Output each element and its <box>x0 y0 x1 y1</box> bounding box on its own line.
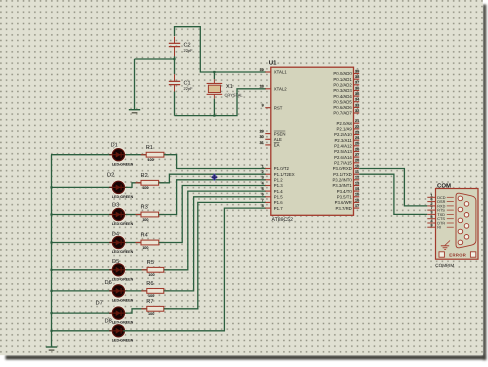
U1 right pin 39 P0.0/AD0 <box>333 69 359 76</box>
COM DB9 hole pin 2 <box>458 207 463 212</box>
svg-text:LED-GREEN: LED-GREEN <box>112 222 134 226</box>
svg-text:33: 33 <box>355 103 359 107</box>
svg-text:PSEN: PSEN <box>274 131 286 136</box>
capacitor C2 <box>169 37 193 57</box>
svg-text:P1.6: P1.6 <box>274 200 283 205</box>
svg-text:LED-GREEN: LED-GREEN <box>112 338 134 342</box>
U1 right pin 25 P2.4/A12 <box>334 142 359 149</box>
connector COM COMPIM <box>427 182 478 268</box>
COM DB9 hole pin 4 <box>458 229 463 234</box>
LED D6 <box>105 280 134 302</box>
U1 left pin 4 P1.3 <box>262 181 284 188</box>
U1 left pin 18 XTAL2 <box>260 85 288 92</box>
U1 right pin 12 P3.2/INT0 <box>332 176 359 183</box>
svg-text:11: 11 <box>355 170 359 174</box>
svg-text:100: 100 <box>147 158 153 162</box>
wire D1 to R1 <box>126 154 147 156</box>
svg-text:100: 100 <box>142 186 148 190</box>
COM DB9 hole pin 5 <box>458 240 463 245</box>
resistor R5 <box>142 260 170 277</box>
svg-text:12: 12 <box>355 176 359 180</box>
svg-text:9: 9 <box>430 223 432 227</box>
svg-text:22: 22 <box>355 125 359 129</box>
svg-text:P2.6/A14: P2.6/A14 <box>334 155 352 160</box>
node bus junction <box>50 213 52 215</box>
svg-text:XTAL1: XTAL1 <box>274 70 287 75</box>
svg-text:R4: R4 <box>141 233 148 239</box>
wire ground branch <box>135 58 175 60</box>
svg-text:13: 13 <box>355 181 359 185</box>
U1 left pin 8 P1.7 <box>262 204 284 211</box>
svg-text:100: 100 <box>142 246 148 250</box>
wire D8 to P1.7 pin <box>123 208 266 331</box>
COM pin 8 CTS <box>427 218 435 220</box>
COM DB9 hole pin 8 <box>464 224 469 229</box>
node bus junction <box>50 330 52 332</box>
svg-text:P1.7: P1.7 <box>274 206 283 211</box>
svg-text:D3: D3 <box>112 203 119 209</box>
svg-text:P2.2/A10: P2.2/A10 <box>334 132 352 137</box>
resistor R1 <box>141 145 170 162</box>
COM pin 4 DTR <box>427 222 435 224</box>
svg-text:LED-GREEN: LED-GREEN <box>112 195 134 199</box>
U1 right pin 28 P2.7/A15 <box>334 159 359 166</box>
svg-text:P3.4/T0: P3.4/T0 <box>337 189 353 194</box>
svg-text:100: 100 <box>142 218 148 222</box>
U1 left pin 19 XTAL1 <box>260 68 288 75</box>
capacitor C1 <box>169 74 193 91</box>
svg-text:19: 19 <box>260 68 264 72</box>
resistor R7 <box>141 299 169 316</box>
U1 right pin 38 P0.1/AD1 <box>333 75 359 82</box>
svg-text:D8: D8 <box>105 319 112 325</box>
svg-text:P2.5/A13: P2.5/A13 <box>334 149 352 154</box>
svg-text:D2: D2 <box>107 173 114 179</box>
U1 left pin 2 P1.1/T2EX <box>262 170 295 177</box>
ground (LED bus) <box>46 346 57 350</box>
wire P3.0 to COM RXD <box>359 169 427 206</box>
LED D7 <box>96 301 134 325</box>
svg-text:EA: EA <box>274 143 280 148</box>
svg-text:D1: D1 <box>111 142 118 148</box>
resistor R2 <box>136 173 165 190</box>
wire crystal top pin <box>213 72 215 79</box>
wire D6 to R6 <box>126 290 147 292</box>
U1 left pin 6 P1.5 <box>262 193 284 200</box>
node junction gnd tap <box>173 58 175 60</box>
svg-text:P1.0/T2: P1.0/T2 <box>274 166 290 171</box>
svg-text:LED-GREEN: LED-GREEN <box>112 299 134 303</box>
COM pin 9 RI <box>427 226 435 228</box>
crystal X1 <box>207 83 244 97</box>
COM DB9 hole pin 7 <box>464 213 469 218</box>
wire D3 to R3 <box>126 214 142 216</box>
svg-text:18: 18 <box>260 85 264 89</box>
COM DB9 hole pin 1 <box>458 196 463 201</box>
wire D7 to R7 <box>126 309 147 313</box>
node marker (blue diamond) <box>211 173 217 181</box>
svg-text:P1.4: P1.4 <box>274 189 283 194</box>
U1 right pin 10 P3.0/RXD <box>333 164 360 171</box>
U1 right pin 36 P0.3/AD3 <box>333 86 359 93</box>
svg-text:P0.4/AD4: P0.4/AD4 <box>333 94 352 99</box>
wire bus to D6 <box>51 290 113 292</box>
svg-text:COMPIM: COMPIM <box>435 263 454 268</box>
U1 right pin 33 P0.6/AD6 <box>333 103 359 110</box>
U1 right pin 13 P3.3/INT1 <box>332 181 359 188</box>
COM DB9 hole pin 6 <box>464 202 469 207</box>
svg-text:XTAL2: XTAL2 <box>274 87 287 92</box>
svg-text:X1: X1 <box>226 84 233 90</box>
svg-text:9: 9 <box>262 104 264 108</box>
U1 right pin 16 P3.6/WR <box>335 198 360 205</box>
svg-text:D6: D6 <box>105 280 112 286</box>
ground (oscillator) <box>129 109 140 113</box>
svg-text:LED-GREEN: LED-GREEN <box>112 277 134 281</box>
svg-text:P3.1/TXD: P3.1/TXD <box>333 172 352 177</box>
svg-text:U1: U1 <box>269 60 277 67</box>
svg-text:R6: R6 <box>146 281 153 287</box>
wire R3 to P1.2 pin <box>159 180 266 215</box>
svg-text:P1.1/T2EX: P1.1/T2EX <box>274 172 295 177</box>
node bus junction <box>50 269 52 271</box>
svg-text:17: 17 <box>355 204 359 208</box>
wire C2 top to XTAL1 net <box>175 27 267 72</box>
U1 left pin 9 RST <box>262 104 283 111</box>
svg-text:15: 15 <box>355 193 359 197</box>
U1 right pin 22 P2.1/A9 <box>337 125 360 132</box>
LED D1 <box>109 142 133 166</box>
U1 right pin 15 P3.5/T1 <box>337 193 359 200</box>
svg-text:P2.1/A9: P2.1/A9 <box>337 127 353 132</box>
svg-text:27: 27 <box>355 153 359 157</box>
node bus junction <box>50 290 52 292</box>
svg-text:7: 7 <box>262 198 264 202</box>
svg-text:P2.4/A12: P2.4/A12 <box>334 144 352 149</box>
svg-text:P0.7/AD7: P0.7/AD7 <box>333 111 352 116</box>
svg-text:ERROR: ERROR <box>449 253 466 258</box>
COM chassis ground glyph <box>445 241 450 246</box>
U1 right pin 37 P0.2/AD2 <box>333 81 359 88</box>
wire bus to D3 <box>51 214 113 216</box>
svg-text:D4: D4 <box>112 232 119 238</box>
wire R7 to P1.6 pin <box>164 202 266 308</box>
LED D2 <box>107 173 134 199</box>
COM DB9 hole pin 9 <box>464 235 469 240</box>
svg-text:2: 2 <box>262 170 264 174</box>
svg-text:LED-GREEN: LED-GREEN <box>112 250 134 254</box>
LED D3 <box>109 203 133 227</box>
svg-text:28: 28 <box>355 159 359 163</box>
U1 right pin 27 P2.6/A14 <box>334 153 359 160</box>
svg-text:29: 29 <box>260 130 264 134</box>
svg-text:10: 10 <box>355 164 359 168</box>
U1 left pin 1 P1.0/T2 <box>262 164 290 171</box>
svg-text:R7: R7 <box>146 299 153 305</box>
svg-text:16: 16 <box>355 198 359 202</box>
svg-text:P3.7/RD: P3.7/RD <box>336 206 352 211</box>
svg-text:31: 31 <box>260 141 264 145</box>
wire crystal bottom pin <box>213 95 215 99</box>
svg-text:8: 8 <box>262 204 264 208</box>
svg-text:37: 37 <box>355 81 359 85</box>
U1 right pin 17 P3.7/RD <box>336 204 360 211</box>
svg-text:ALE: ALE <box>274 137 282 142</box>
svg-text:22pF: 22pF <box>184 48 194 53</box>
svg-text:23: 23 <box>355 130 359 134</box>
svg-text:100: 100 <box>148 312 154 316</box>
svg-text:R5: R5 <box>147 260 154 266</box>
wire D4 to R4 <box>126 242 142 244</box>
svg-text:P2.7/A15: P2.7/A15 <box>334 161 352 166</box>
svg-text:P2.0/A8: P2.0/A8 <box>337 121 353 126</box>
svg-text:P0.5/AD5: P0.5/AD5 <box>333 99 352 104</box>
svg-text:P2.3/A11: P2.3/A11 <box>334 138 352 143</box>
wire R5 to P1.4 pin <box>164 191 266 270</box>
node junction XTAL1/crystal <box>213 71 215 73</box>
U1 left pin 30 ALE <box>260 135 282 142</box>
wire R6 to P1.5 pin <box>164 197 266 291</box>
svg-text:P3.2/INT0: P3.2/INT0 <box>332 178 352 183</box>
wire LED cathode bus <box>51 155 53 347</box>
wire bus to D7 <box>51 312 113 314</box>
wire R2 to P1.1 pin <box>159 174 266 183</box>
svg-text:CRYSTAL: CRYSTAL <box>225 92 244 97</box>
svg-text:21: 21 <box>355 119 359 123</box>
svg-text:1: 1 <box>262 164 264 168</box>
svg-text:P3.6/WR: P3.6/WR <box>335 200 352 205</box>
svg-text:P1.2: P1.2 <box>274 178 283 183</box>
svg-text:P1.3: P1.3 <box>274 183 283 188</box>
svg-text:LED-GREEN: LED-GREEN <box>112 162 134 166</box>
node bus junction <box>50 312 52 314</box>
svg-text:22pF: 22pF <box>184 86 194 91</box>
U1 right pin 21 P2.0/A8 <box>337 119 360 126</box>
wire XTAL2 net <box>175 89 267 116</box>
svg-text:26: 26 <box>355 147 359 151</box>
svg-text:100: 100 <box>148 273 154 277</box>
svg-text:P0.6/AD6: P0.6/AD6 <box>333 105 352 110</box>
U1 right pin 26 P2.5/A13 <box>334 147 359 154</box>
svg-text:P0.0/AD0: P0.0/AD0 <box>333 71 352 76</box>
svg-text:D5: D5 <box>112 259 119 265</box>
op chip body U1 AT89C52 <box>269 60 354 224</box>
svg-text:30: 30 <box>260 135 264 139</box>
svg-text:100: 100 <box>148 294 154 298</box>
wire P3.1 to COM TXD <box>359 174 427 214</box>
svg-text:36: 36 <box>355 86 359 90</box>
svg-text:R3: R3 <box>141 205 148 211</box>
wire bus to D5 <box>51 269 113 271</box>
wire D5 to R5 <box>126 269 148 271</box>
U1 right pin 35 P0.4/AD4 <box>333 92 359 99</box>
svg-text:P3.0/RXD: P3.0/RXD <box>333 166 352 171</box>
U1 left pin 5 P1.4 <box>262 187 284 194</box>
svg-text:5: 5 <box>262 187 264 191</box>
U1 left pin 3 P1.2 <box>262 176 284 183</box>
U1 left pin 7 P1.6 <box>262 198 284 205</box>
wire C1 bottom <box>174 92 176 116</box>
wire C2 bottom to C1 top <box>174 56 176 74</box>
COM pin 3 TXD <box>427 213 435 215</box>
COM pin 1 DCD <box>427 196 435 198</box>
svg-text:R1: R1 <box>146 145 153 151</box>
COM pin 2 RXD <box>427 205 435 207</box>
U1 right pin 34 P0.5/AD5 <box>333 98 360 105</box>
COM pin 6 DSR <box>427 201 435 203</box>
svg-text:P0.2/AD2: P0.2/AD2 <box>333 83 352 88</box>
U1 right pin 24 P2.3/A11 <box>334 136 360 143</box>
wire R4 to P1.3 pin <box>159 186 266 243</box>
LED D5 <box>109 259 133 281</box>
svg-text:P0.1/AD1: P0.1/AD1 <box>333 77 352 82</box>
node junction crystal bottom <box>213 115 215 117</box>
node bus junction <box>50 186 52 188</box>
svg-text:RI: RI <box>437 226 441 230</box>
wire R1 to P1.0 pin <box>164 155 266 169</box>
svg-text:P0.3/AD3: P0.3/AD3 <box>333 88 352 93</box>
svg-text:25: 25 <box>355 142 359 146</box>
LED D4 <box>109 232 133 255</box>
U1 right pin 11 P3.1/TXD <box>333 170 359 177</box>
U1 left pin 31 EA <box>260 141 280 148</box>
svg-text:38: 38 <box>355 75 359 79</box>
resistor R4 <box>136 233 165 250</box>
U1 left pin 29 PSEN <box>260 130 286 137</box>
node bus junction <box>50 241 52 243</box>
svg-text:P3.3/INT1: P3.3/INT1 <box>332 183 352 188</box>
svg-text:D7: D7 <box>96 301 103 307</box>
resistor R3 <box>136 205 165 222</box>
svg-text:35: 35 <box>355 92 359 96</box>
resistor R6 <box>141 281 169 298</box>
COM DB9 shell <box>456 193 476 248</box>
LED D8 <box>105 319 134 343</box>
COM DB9 hole pin 3 <box>458 218 463 223</box>
wire bus to D8 <box>51 330 113 332</box>
U1 right pin 14 P3.4/T0 <box>337 187 360 194</box>
U1 right pin 23 P2.2/A10 <box>334 130 359 137</box>
COM ERROR indicator <box>439 252 444 257</box>
U1 right pin 32 P0.7/AD7 <box>333 109 359 116</box>
svg-text:3: 3 <box>262 176 264 180</box>
svg-text:RST: RST <box>274 105 283 110</box>
svg-text:R2: R2 <box>141 173 148 179</box>
svg-text:39: 39 <box>355 69 359 73</box>
svg-text:P1.5: P1.5 <box>274 195 283 200</box>
COM pin 7 RTS <box>427 209 435 211</box>
svg-text:P3.5/T1: P3.5/T1 <box>337 195 353 200</box>
wire D2 to R2 <box>126 183 142 188</box>
wire bus to D4 <box>51 242 113 244</box>
svg-text:AT89C52: AT89C52 <box>272 217 294 223</box>
wire bus to D1 <box>51 154 113 156</box>
svg-text:6: 6 <box>262 193 264 197</box>
svg-text:32: 32 <box>355 109 359 113</box>
wire bus to D2 <box>51 186 113 188</box>
